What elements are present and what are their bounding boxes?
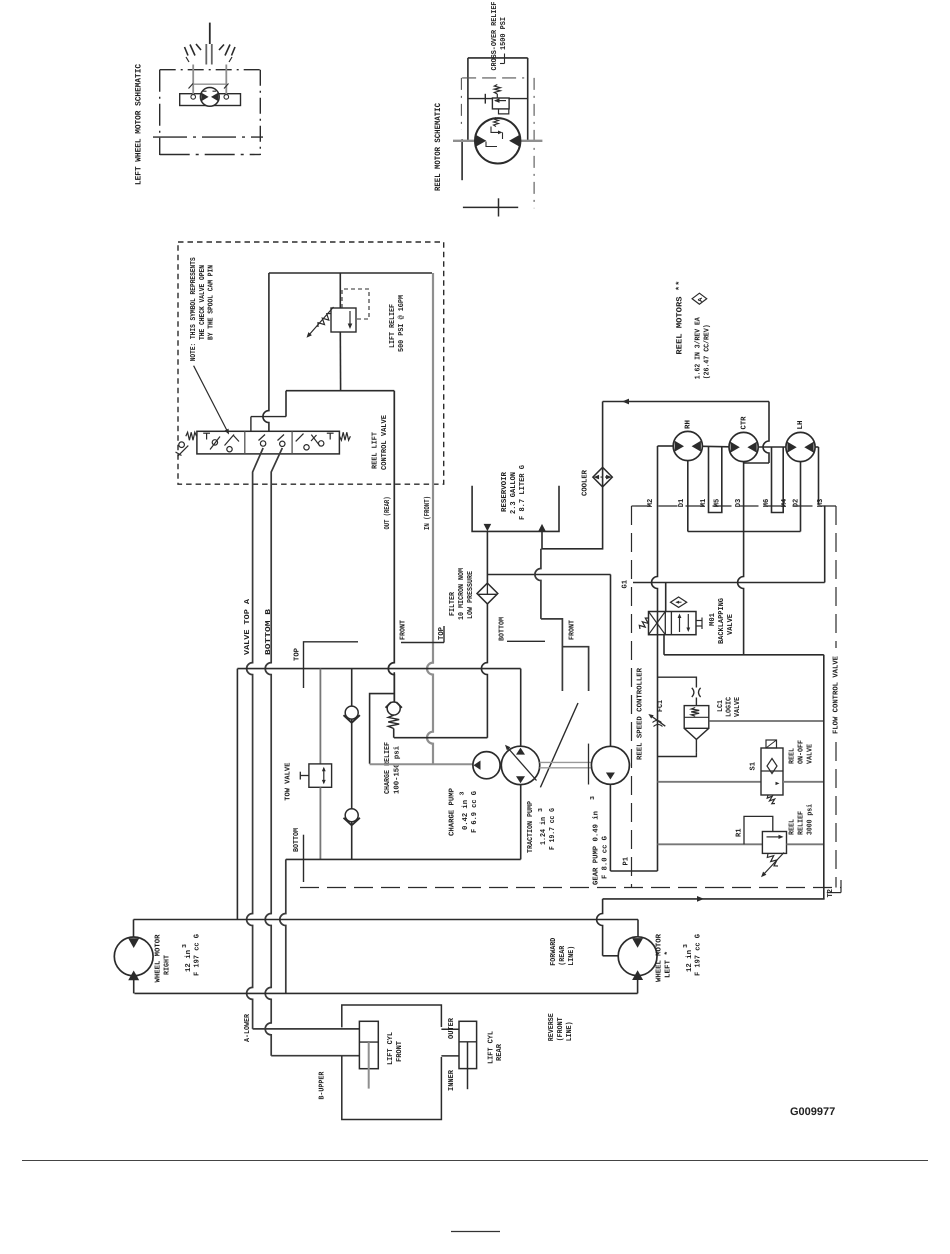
traction pump top wire: [520, 669, 522, 747]
svg-text:TOP: TOP: [293, 647, 301, 661]
pump drive shaft: [540, 761, 592, 763]
svg-text:100-150 psi: 100-150 psi: [392, 745, 401, 794]
check valve upper: [351, 669, 353, 707]
svg-text:VALVE: VALVE: [806, 744, 814, 764]
svg-text:2.3 GALLON: 2.3 GALLON: [510, 472, 518, 514]
svg-text:A-LOWER: A-LOWER: [244, 1013, 252, 1042]
svg-text:F 197 cc G: F 197 cc G: [695, 933, 703, 976]
internal shuttle relief: [494, 118, 499, 127]
svg-text:M01: M01: [709, 612, 717, 626]
svg-text:LOW PRESSURE: LOW PRESSURE: [467, 571, 475, 619]
svg-text:P1: P1: [623, 856, 631, 865]
svg-text:G1: G1: [622, 579, 630, 588]
relief pilot dashed loop: [342, 289, 369, 319]
wheel motor left: [618, 937, 657, 976]
filter diamond: [477, 583, 498, 604]
wheel enclosure chain-line box: [160, 69, 261, 71]
svg-text:LOGIC: LOGIC: [726, 697, 734, 717]
axle chain line: [153, 136, 263, 138]
svg-text:F 8.0 cc G: F 8.0 cc G: [601, 835, 609, 879]
svg-text:0.42 in: 0.42 in: [461, 800, 470, 830]
svg-text:1500 PSI: 1500 PSI: [500, 17, 508, 50]
svg-text:NOTE: THIS SYMBOL REPRESENTS: NOTE: THIS SYMBOL REPRESENTS: [190, 257, 198, 361]
svg-text:REAR: REAR: [496, 1043, 504, 1061]
svg-text:F 8.7 LITER G: F 8.7 LITER G: [519, 464, 527, 520]
brake release stem: [209, 23, 211, 44]
hose B (bottom): [271, 448, 282, 540]
svg-text:FORWARD: FORWARD: [550, 937, 558, 966]
charge relief bypass loop: [370, 694, 395, 764]
svg-text:REEL: REEL: [789, 818, 797, 835]
relief wires: [339, 273, 341, 308]
svg-text:ON-OFF: ON-OFF: [797, 740, 805, 764]
charge pump: [473, 752, 500, 779]
flow control valve dashed box: [632, 505, 837, 507]
lift cyl front: [359, 1021, 378, 1068]
svg-text:3: 3: [537, 808, 544, 812]
svg-text:LIFT CYL: LIFT CYL: [487, 1030, 495, 1064]
cooler diamond: [593, 467, 612, 487]
R1 pilot loop: [744, 816, 773, 844]
S1 right wire: [783, 781, 824, 783]
main pressure bus (to gear pump): [652, 446, 658, 871]
svg-text:OUT (REAR): OUT (REAR): [383, 497, 392, 530]
backlapping valve M01: [649, 612, 697, 635]
R1 right wire: [787, 843, 824, 845]
reverse (front) bus: [135, 992, 638, 994]
svg-text:FRONT: FRONT: [399, 620, 407, 640]
svg-text:CHARGE PUMP: CHARGE PUMP: [448, 787, 456, 836]
wheel box bottom chain line: [160, 154, 261, 156]
R1 spring + adjust arrow: [767, 853, 778, 866]
motor port lines (gray): [192, 65, 194, 97]
lift cyl rear: [459, 1021, 477, 1068]
R1 relief valve: [762, 832, 786, 854]
traction pump: [501, 746, 539, 784]
LC1 logic valve: [684, 706, 709, 729]
svg-text:(26.47 CC/REV): (26.47 CC/REV): [703, 324, 712, 379]
svg-text:A: A: [697, 297, 704, 302]
bridge over valve centre: [251, 416, 286, 418]
svg-text:(FRONT: (FRONT: [556, 1017, 565, 1041]
svg-text:3: 3: [459, 791, 466, 795]
svg-text:3: 3: [181, 944, 188, 948]
svg-text:CTR: CTR: [741, 416, 749, 430]
svg-text:3: 3: [682, 944, 689, 948]
svg-text:500 PSI @ 1GPM: 500 PSI @ 1GPM: [397, 294, 406, 352]
relief cross lines: [468, 98, 493, 100]
svg-text:OUTER: OUTER: [448, 1017, 456, 1039]
svg-text:LH: LH: [797, 421, 805, 430]
svg-text:RH: RH: [684, 420, 692, 429]
tow valve wire: [319, 669, 321, 764]
return header to T2 bus: [664, 654, 824, 656]
LC1 branch top: [658, 677, 697, 687]
supply wire to valve: [263, 273, 269, 431]
svg-text:LINE): LINE): [565, 1021, 574, 1041]
svg-text:VALVE TOP A: VALVE TOP A: [244, 598, 252, 655]
RH-LH bottom link: [687, 461, 689, 532]
suction line to gear pump: [487, 574, 610, 576]
svg-text:CROSS-OVER RELIEF: CROSS-OVER RELIEF: [491, 2, 499, 71]
motor thru-line (gray): [453, 140, 542, 142]
svg-text:REEL MOTORS **: REEL MOTORS **: [675, 281, 684, 355]
check valve lower: [345, 809, 358, 822]
svg-text:REEL SPEED CONTROLLER: REEL SPEED CONTROLLER: [637, 667, 645, 760]
svg-text:INNER: INNER: [448, 1069, 456, 1091]
footer tick: [451, 1231, 500, 1233]
svg-text:BY THE SPOOL CAM PIN: BY THE SPOOL CAM PIN: [208, 265, 216, 340]
relief outlet tee: [286, 390, 394, 392]
motor body rect: [180, 94, 241, 106]
brake symbol strokes: [185, 47, 189, 56]
port circles: [191, 95, 196, 100]
pilot circle + lever: [179, 442, 185, 448]
cylinder manifold frame: [342, 1005, 442, 1027]
flow triangles: [475, 134, 487, 147]
svg-text:REVERSE: REVERSE: [548, 1013, 556, 1042]
svg-text:LC1: LC1: [717, 699, 725, 712]
CTR bottom wire: [738, 462, 744, 655]
cross-over relief valve: [492, 98, 509, 109]
motor drain U lines: [709, 447, 722, 513]
svg-text:T2: T2: [827, 889, 835, 898]
flag diamond arrow: [671, 597, 687, 607]
svg-text:D1: D1: [678, 498, 686, 507]
svg-text:COOLER: COOLER: [582, 469, 590, 496]
hose to front stub (staircase): [535, 549, 541, 619]
gear pump outlet (P1): [609, 784, 611, 871]
svg-text:RESERVOIR: RESERVOIR: [501, 471, 509, 512]
hose D to reverse bus: [280, 859, 286, 993]
hose OUT rear: [388, 391, 394, 703]
wheel motor right: [114, 937, 153, 976]
svg-text:CONTROL VALVE: CONTROL VALVE: [381, 414, 389, 470]
tank T marks: [206, 433, 208, 439]
svg-text:RELIEF: RELIEF: [798, 811, 806, 835]
motor LH: [786, 432, 815, 461]
M3 wire: [824, 505, 826, 582]
svg-text:3: 3: [589, 796, 596, 800]
svg-text:TRACTION PUMP: TRACTION PUMP: [527, 801, 535, 853]
valve section 1 internals: [212, 440, 217, 445]
charge relief outlet header: [394, 737, 488, 739]
LC1 bottom branch: [658, 753, 697, 757]
svg-text:B-UPPER: B-UPPER: [319, 1071, 327, 1100]
svg-text:1.24 in: 1.24 in: [539, 817, 548, 845]
flag diamond A: [692, 293, 707, 304]
return line with arrow to cooler: [603, 401, 769, 403]
S1 valve: [761, 748, 783, 795]
svg-text:(REAR: (REAR: [558, 945, 567, 965]
svg-text:LIFT RELIEF: LIFT RELIEF: [389, 304, 397, 348]
hose A (valve top): [253, 448, 264, 540]
wheel motor circle: [200, 88, 219, 107]
wire right: [527, 58, 529, 141]
svg-text:LEFT WHEEL MOTOR SCHEMATIC: LEFT WHEEL MOTOR SCHEMATIC: [135, 64, 144, 185]
svg-text:LINE): LINE): [567, 946, 576, 966]
svg-text:LIFT CYL: LIFT CYL: [387, 1031, 395, 1065]
svg-text:S1: S1: [750, 761, 758, 770]
forward (rear) bus: [134, 919, 639, 921]
tow valve: [309, 764, 332, 787]
svg-text:BOTTOM B: BOTTOM B: [265, 608, 273, 655]
svg-text:FILTER: FILTER: [449, 592, 457, 616]
svg-text:GEAR PUMP 0.49 in: GEAR PUMP 0.49 in: [591, 811, 600, 885]
lift relief valve: [331, 308, 356, 332]
svg-text:F 6.9 cc G: F 6.9 cc G: [471, 790, 479, 833]
svg-text:F 19.7 cc G: F 19.7 cc G: [549, 808, 557, 850]
gear pump: [591, 746, 629, 784]
svg-text:VALVE: VALVE: [734, 697, 742, 717]
wire bus to R1 (gray): [658, 843, 763, 845]
motor left drain to T2: [597, 899, 603, 956]
charge circuit header: [237, 668, 520, 670]
svg-text:F 197 cc G: F 197 cc G: [194, 933, 202, 976]
motor CTR: [729, 432, 758, 461]
svg-text:REEL MOTOR SCHEMATIC: REEL MOTOR SCHEMATIC: [434, 103, 443, 191]
orifice: [692, 688, 694, 697]
wire from CTR motor loop: [763, 402, 769, 464]
svg-text:REEL: REEL: [788, 747, 796, 764]
charge pump inlet (gray): [370, 763, 474, 765]
T2 return line: [603, 898, 825, 900]
svg-text:TOW VALVE: TOW VALVE: [285, 762, 293, 801]
backlap bottom wire: [663, 635, 665, 655]
supply bus top: [269, 272, 432, 274]
hose A to cylinders: [253, 1028, 360, 1030]
valve section 2 internals (check valves): [260, 441, 265, 446]
motor interconnect bus: [658, 445, 674, 447]
svg-text:RIGHT: RIGHT: [163, 955, 171, 975]
note leader arrow: [194, 366, 228, 432]
svg-text:CHARGE RELIEF: CHARGE RELIEF: [384, 742, 392, 794]
solenoid tab: [696, 620, 702, 622]
svg-text:BOTTOM: BOTTOM: [498, 617, 506, 641]
svg-text:FRONT: FRONT: [569, 620, 577, 640]
svg-text:THE CHECK VALVE OPEN: THE CHECK VALVE OPEN: [199, 265, 207, 340]
svg-text:LEFT *: LEFT *: [664, 951, 673, 978]
reel motor top bus: [468, 57, 528, 59]
svg-text:FLOW CONTROL VALVE: FLOW CONTROL VALVE: [833, 655, 841, 734]
svg-text:FC1: FC1: [657, 699, 665, 712]
svg-text:G009977: G009977: [790, 1106, 835, 1118]
hose B to cylinders: [271, 1055, 359, 1057]
reel motor circle: [475, 118, 520, 163]
svg-text:WHEEL MOTOR: WHEEL MOTOR: [656, 933, 664, 982]
bottom axle cross: [463, 206, 518, 208]
svg-text:REEL LIFT: REEL LIFT: [371, 431, 379, 469]
svg-text:WHEEL MOTOR: WHEEL MOTOR: [154, 934, 162, 983]
traction pump bottom wire: [520, 784, 522, 859]
cooler return wire: [542, 402, 603, 549]
svg-text:VALVE: VALVE: [727, 613, 735, 635]
chain enclosure: [462, 77, 524, 79]
svg-text:BOTTOM: BOTTOM: [293, 828, 301, 852]
lift cyl rear ports: [441, 1028, 459, 1030]
valve section 3 internals: [304, 445, 309, 450]
svg-text:FRONT: FRONT: [396, 1040, 404, 1062]
filter outlet wire: [481, 604, 487, 738]
filter wire from reservoir: [486, 531, 488, 583]
hose IN front (gray): [427, 273, 433, 764]
T2 right bus: [823, 655, 825, 899]
dashed enclosure REEL LIFT CONTROL VALVE: [178, 242, 444, 484]
svg-text:IN (FRONT): IN (FRONT): [423, 496, 432, 530]
valve end springs: [186, 432, 197, 440]
svg-text:12 in: 12 in: [184, 950, 193, 972]
4-way valve body: [197, 431, 340, 454]
svg-text:TOP: TOP: [438, 626, 446, 640]
svg-text:BACKLAPPING: BACKLAPPING: [718, 597, 726, 644]
svg-text:10 MICRON NOM: 10 MICRON NOM: [458, 568, 466, 620]
backlap valve top wire: [665, 583, 667, 612]
svg-text:1.62 IN 3/REV EA: 1.62 IN 3/REV EA: [694, 317, 703, 379]
svg-text:12 in: 12 in: [685, 950, 694, 972]
footer rule: [22, 1160, 928, 1162]
reservoir: [472, 486, 559, 532]
pilot stub: [499, 109, 509, 114]
LC1 right port wire: [709, 720, 824, 722]
backlap spring: [639, 618, 649, 629]
svg-text:R1: R1: [735, 828, 743, 837]
svg-text:3000 psi: 3000 psi: [806, 804, 815, 835]
motor RH: [673, 431, 702, 460]
wire bus to S1: [658, 781, 762, 783]
wire left: [467, 58, 469, 141]
traction supply drop: [236, 669, 238, 920]
